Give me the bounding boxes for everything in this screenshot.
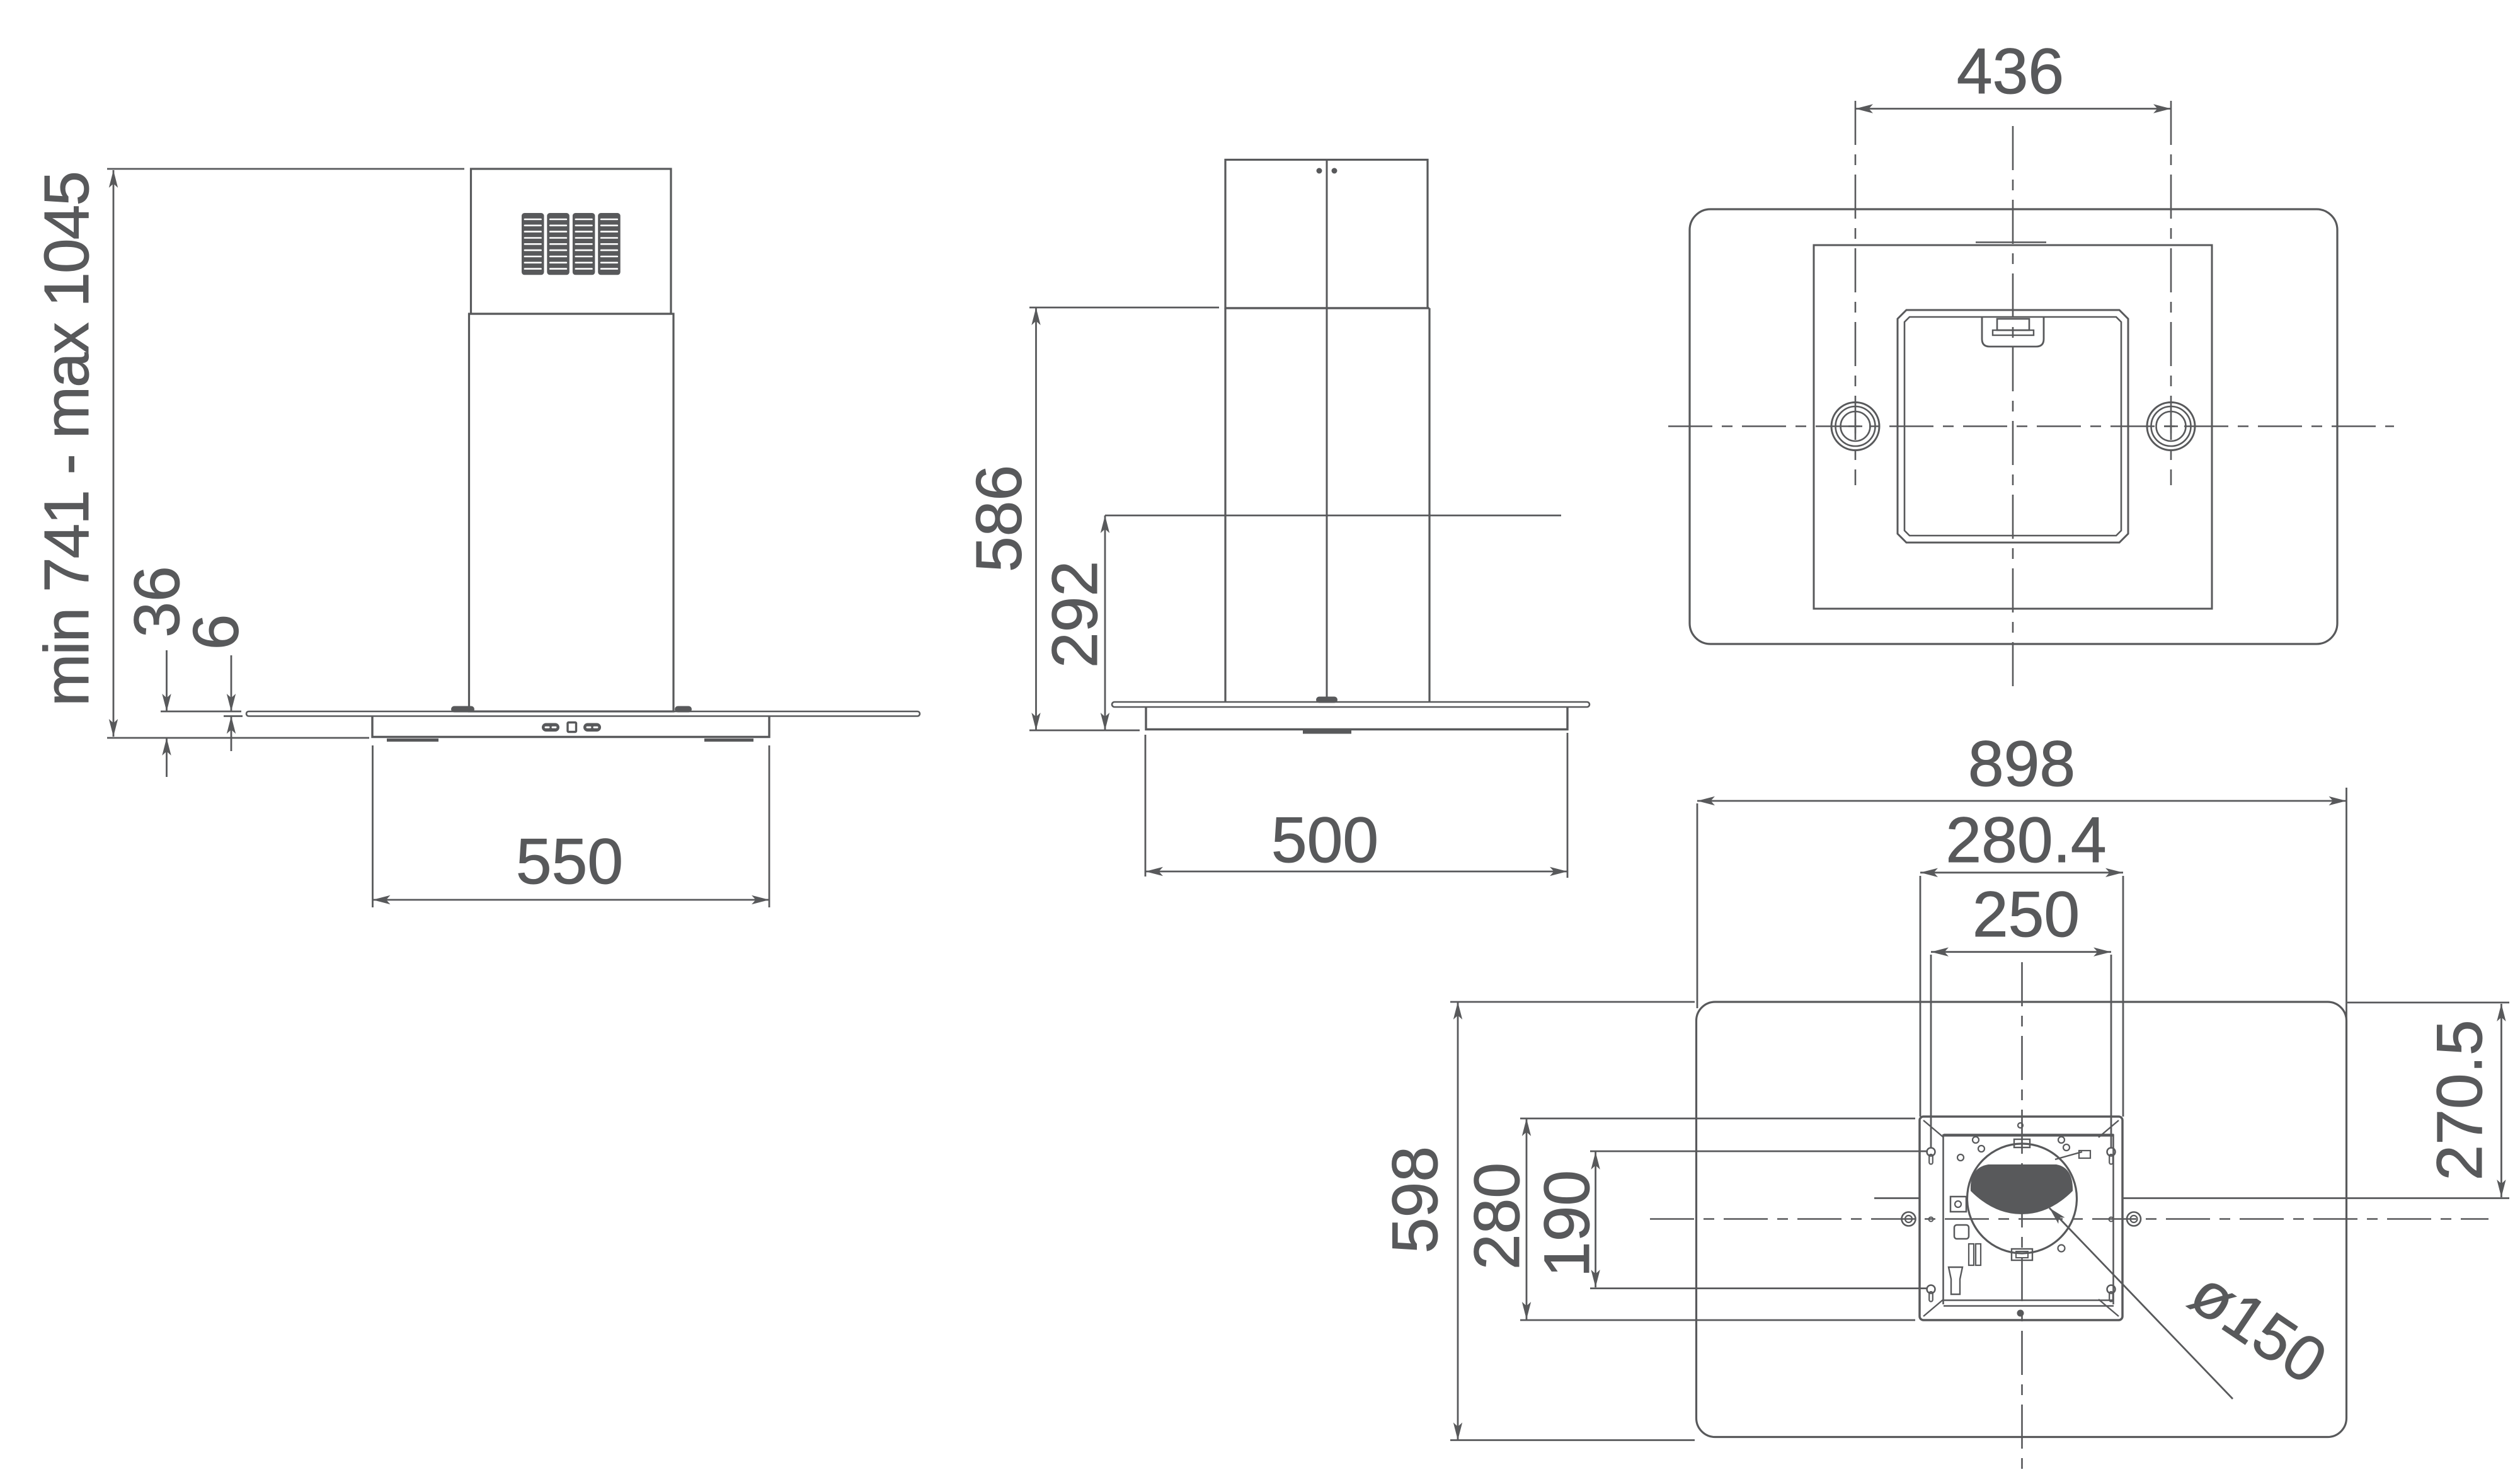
bottom view: bottom filter rail — [1944, 1301, 2114, 1306]
bottom view: bracket rod left — [1969, 1244, 1974, 1265]
top view: filter frame outer — [1898, 310, 2128, 543]
front view: chimney upper section — [471, 169, 672, 314]
vent grille on chimney — [522, 213, 621, 275]
dimension line 586 — [1035, 307, 1037, 730]
svg-text:292: 292 — [1039, 561, 1111, 668]
dimension line 550 — [373, 899, 770, 901]
control button right — [583, 723, 601, 732]
label 190 — [1531, 1170, 1603, 1277]
top view: filter frame inner — [1904, 317, 2121, 536]
dimension 36 tick at glass top — [161, 711, 241, 713]
dimension line 292 — [1104, 515, 1106, 730]
bottom view: glass screw left — [1902, 1212, 1916, 1226]
dimension 280.4 extension right — [2122, 876, 2124, 1117]
bottom view: fan scroll (dark) — [1971, 1164, 2073, 1214]
bottom view: inner frame left — [1942, 1134, 1944, 1304]
top view: mounting hole left — [1831, 403, 1879, 451]
side view: screw dot left — [1317, 168, 1322, 174]
svg-text:6: 6 — [180, 614, 252, 650]
side view: chimney lower section — [1225, 308, 1429, 702]
bottom view: screw e — [1957, 1154, 1964, 1161]
dimension 280 extension bottom — [1520, 1319, 1915, 1321]
bottom view: duct top tab — [2014, 1139, 2030, 1147]
bottom view: keyhole bottom-left — [1927, 1285, 1935, 1302]
bottom view: screw f — [2058, 1245, 2065, 1252]
dimension 586 extension top — [1029, 307, 1219, 309]
bottom view: pivot right — [2109, 1217, 2114, 1222]
dimension 36 upper pointer — [166, 650, 168, 711]
bottom view: corner bevel bottom-right — [2099, 1299, 2119, 1316]
side view: bottom bump — [1303, 730, 1351, 734]
svg-text:550: 550 — [516, 825, 623, 897]
control button middle — [568, 723, 576, 732]
bottom view: bracket rod right — [1976, 1244, 1981, 1265]
dimension line 500 — [1145, 871, 1567, 873]
front view: extension line bottom (hood body bottom level) — [107, 737, 369, 739]
dimension line 898 — [1697, 800, 2347, 802]
side view: screw dot right — [1332, 168, 1337, 174]
svg-text:598: 598 — [1379, 1146, 1451, 1253]
leader line ø150 — [2049, 1208, 2233, 1399]
dimension line 280.4 — [1920, 871, 2123, 873]
bottom view: keyhole top-right — [2107, 1148, 2116, 1164]
side view: body bottom extension — [1029, 730, 1140, 732]
control button left — [542, 723, 559, 732]
dimension 436 extension left — [1855, 101, 1857, 485]
dimension 598 extension bottom — [1450, 1439, 1695, 1441]
bottom view: duct bottom tab — [2012, 1249, 2032, 1260]
dimension line 250 — [1931, 951, 2111, 953]
label 598 — [1379, 1146, 1451, 1253]
label 270.5 — [2424, 1020, 2495, 1180]
bottom view: keyhole bottom-right — [2107, 1285, 2116, 1302]
svg-text:280.4: 280.4 — [1945, 804, 2106, 876]
dimension 898 extension right — [2345, 788, 2347, 1040]
dimension 250 extension left — [1930, 955, 1932, 1148]
bottom view: glass screw right — [2127, 1212, 2141, 1226]
bottom view: screw b — [2058, 1137, 2065, 1143]
side view: chimney foot — [1316, 697, 1337, 703]
svg-text:min 741 - max 1045: min 741 - max 1045 — [31, 172, 102, 706]
label 898 — [1968, 728, 2075, 800]
label 586 — [963, 465, 1035, 572]
svg-text:270.5: 270.5 — [2424, 1020, 2495, 1180]
svg-text:898: 898 — [1968, 728, 2075, 800]
bottom view: duct circle ø150 — [1967, 1144, 2077, 1253]
dimension 270.5 extension top — [2347, 1002, 2509, 1004]
side view: chimney middle seam — [1326, 160, 1328, 703]
dimension 250 extension right — [2110, 955, 2112, 1148]
bottom view: vertical centerline — [2021, 962, 2023, 1477]
top view: vertical centerline — [2012, 126, 2014, 689]
label 550 — [516, 825, 623, 897]
svg-text:250: 250 — [1973, 878, 2080, 950]
bottom view: glass plate outline — [1697, 1002, 2347, 1437]
bottom view: pivot left — [1929, 1217, 1933, 1222]
top view: horizontal centerline — [1668, 425, 2394, 427]
dimension 500 extension left — [1145, 735, 1147, 876]
dimension line 190 — [1595, 1152, 1596, 1287]
bottom view: screw d — [2063, 1144, 2070, 1151]
front view: chimney foot left — [451, 706, 474, 713]
bottom view: keyhole top-left — [1927, 1148, 1935, 1164]
label 6 — [180, 614, 252, 650]
front view: filter lip left — [387, 738, 438, 742]
dimension 598 extension top — [1450, 1001, 1695, 1003]
side view: hood body — [1146, 707, 1567, 730]
dimension line 598 — [1457, 1002, 1459, 1440]
dimension 36 lower pointer — [166, 738, 168, 777]
bottom view: screw c — [1978, 1146, 1984, 1152]
top view: glass plate outline — [1690, 209, 2337, 644]
label 500 — [1271, 804, 1378, 876]
top view: chimney seam mark — [1976, 241, 2046, 243]
bottom view: motor housing outer square — [1920, 1117, 2122, 1320]
dimension 550 extension right — [769, 745, 770, 907]
dimension 550 extension left — [372, 745, 374, 907]
side view: chimney upper section — [1225, 160, 1428, 309]
bottom view: damper lever — [2055, 1151, 2090, 1159]
bottom view: duct centre line left segment — [1874, 1197, 1920, 1199]
dimension 500 extension right — [1567, 733, 1569, 878]
front view: chimney lower section — [469, 314, 674, 711]
dimension 6 tick at glass bottom — [224, 715, 243, 717]
label 36 — [121, 566, 193, 637]
dimension 190 extension bottom — [1590, 1287, 1928, 1289]
bottom view: cable funnel — [1949, 1267, 1962, 1294]
dimension 898 extension left — [1697, 803, 1698, 1008]
svg-text:586: 586 — [963, 465, 1035, 572]
bottom view: corner bevel top-right — [2099, 1120, 2119, 1137]
top view: mounting hole right — [2147, 403, 2195, 451]
side view: reference line at 292 level — [1105, 515, 1561, 517]
label 280 — [1461, 1163, 1533, 1270]
bottom view: corner bevel top-left — [1923, 1120, 1944, 1137]
front view: filter lip right — [704, 738, 753, 742]
dimension line 270.5 — [2500, 1004, 2502, 1197]
dimension 6 upper pointer — [231, 655, 232, 711]
bottom view: inner frame right — [2112, 1134, 2114, 1304]
side view: glass plate — [1112, 702, 1589, 707]
dimension 6 lower pointer — [231, 716, 232, 752]
svg-text:436: 436 — [1957, 35, 2064, 107]
label 292 — [1039, 561, 1111, 668]
dimension 436 extension right — [2170, 101, 2172, 485]
dimension line min 741 - max 1045 — [113, 170, 115, 737]
bottom view: top spring rail — [1944, 1134, 2114, 1137]
bottom view: bottom centre dot — [2017, 1310, 2024, 1317]
front view: glass plate — [246, 711, 920, 716]
bottom view: capacitor — [1954, 1225, 1969, 1239]
label 250 — [1973, 878, 2080, 950]
bottom view: horizontal centerline — [1650, 1218, 2488, 1220]
bottom view: terminal box — [1950, 1197, 1966, 1212]
top view: filter clip — [1982, 318, 2044, 347]
svg-text:280: 280 — [1461, 1163, 1533, 1270]
svg-text:500: 500 — [1271, 804, 1378, 876]
dimension line 436 — [1855, 108, 2171, 110]
front view: hood body — [372, 716, 769, 737]
bottom view: corner bevel bottom-left — [1923, 1299, 1944, 1316]
dimension 280 extension top — [1520, 1118, 1915, 1120]
top view: hood body outline — [1814, 245, 2212, 609]
bottom view: screw a — [1973, 1137, 1979, 1143]
dimension 190 extension top — [1590, 1151, 1928, 1152]
label 436 — [1957, 35, 2064, 107]
front view: chimney foot right — [675, 706, 692, 713]
label min 741 - max 1045 — [31, 172, 102, 706]
dimension 270.5 extension bottom (duct centre line) — [2122, 1197, 2509, 1199]
bottom view: top centre screw — [2018, 1123, 2023, 1128]
label ø150 — [2178, 1256, 2339, 1398]
front view: extension line top (chimney top level) — [107, 168, 464, 170]
dimension 280.4 extension left — [1920, 876, 1921, 1117]
dimension line 280 — [1526, 1118, 1528, 1319]
svg-text:190: 190 — [1531, 1170, 1603, 1277]
label 280.4 — [1945, 804, 2106, 876]
